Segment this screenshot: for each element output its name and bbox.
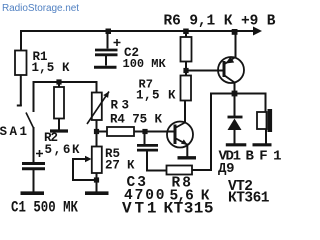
wire R2 bottom (58, 119, 60, 131)
resistor R8 (167, 166, 193, 175)
wire BF1 top lead (265, 94, 267, 113)
resistor R1 (15, 51, 27, 76)
svg-text:1,5 К: 1,5 К (32, 61, 70, 75)
wire output node horizontal (211, 93, 266, 95)
wire R3 bottom (96, 120, 98, 132)
ground R2 (50, 129, 68, 132)
wire VT2 collector vertical (234, 83, 236, 94)
svg-text:C1 500 МК: C1 500 МК (11, 199, 78, 217)
svg-text:Д9: Д9 (218, 161, 235, 177)
wire VT2 emitter vertical (235, 32, 237, 58)
wire R6-R7 joint (185, 62, 187, 76)
ground VD1 (226, 143, 247, 146)
wire R2 stub (58, 82, 60, 87)
svg-text:SA1: SA1 (0, 125, 27, 139)
ground R5 (85, 191, 109, 195)
resistor R5 wiper arrowhead (85, 156, 92, 162)
wire R3 top stub (96, 82, 98, 93)
earphone BF1 (257, 112, 267, 129)
svg-text:R6 9,1 К +9 В: R6 9,1 К +9 В (164, 14, 276, 30)
svg-text:VT1: VT1 (122, 200, 157, 218)
resistor R3 (92, 93, 102, 121)
svg-text:5,6К: 5,6К (45, 143, 80, 157)
wire node horizontal (34, 81, 97, 83)
wire VD1 bottom lead (234, 130, 236, 144)
svg-text:RadioStorage.net: RadioStorage.net (2, 3, 79, 14)
svg-text:100 МК: 100 МК (123, 57, 167, 71)
svg-text:BF1: BF1 (246, 149, 282, 165)
svg-text:КТ315: КТ315 (164, 200, 214, 218)
wire joint to VT2 base (186, 70, 223, 72)
resistor R2 (54, 87, 64, 119)
transistor VT2 (218, 57, 244, 83)
wire VT1 collector (184, 101, 186, 123)
transistor VT1 (167, 122, 193, 148)
wire C1 vertical (33, 82, 35, 111)
power arrow +9V (253, 27, 262, 36)
capacitor C1 (21, 150, 46, 193)
wire R5 bottom lead (96, 173, 98, 192)
svg-text:27 К: 27 К (105, 159, 135, 173)
svg-text:КТ361: КТ361 (228, 191, 270, 207)
wire R3dot to R4 (97, 131, 108, 133)
wire R5 top lead (96, 132, 98, 147)
wire left drop to R1 (20, 31, 22, 51)
switch SA1 blade (26, 113, 34, 129)
capacitor C2 (94, 31, 121, 67)
wire C3 top lead (144, 132, 146, 145)
wire R8 right riser (192, 94, 211, 171)
wire C1 bottom lead (33, 171, 35, 192)
node dots (56, 29, 237, 183)
resistor R6 (181, 37, 192, 62)
wire C3 bottom lead (147, 152, 167, 171)
resistor R3 arrow diagonal (87, 92, 109, 125)
ground VT1 emitter (178, 156, 197, 159)
svg-text:R4 75 К: R4 75 К (110, 113, 162, 127)
wire BF1 bottom lead (265, 129, 267, 143)
svg-text:1,5 К: 1,5 К (136, 89, 176, 103)
wire VT1 emitter drop (186, 145, 188, 157)
wire top rail (21, 30, 253, 32)
wire R5 wiper (73, 159, 97, 180)
resistor R4 (107, 127, 134, 136)
wire R1 bottom to switch (20, 75, 22, 105)
resistor R7 (181, 76, 192, 101)
diode VD1 (228, 116, 243, 119)
resistor R5 (92, 147, 102, 174)
wire VD1 top lead (234, 94, 236, 116)
wire R6 top stub (185, 31, 187, 37)
capacitor C3 (137, 145, 158, 150)
wire R4 to VT1 base (134, 131, 174, 133)
ground BF1 (253, 143, 272, 146)
